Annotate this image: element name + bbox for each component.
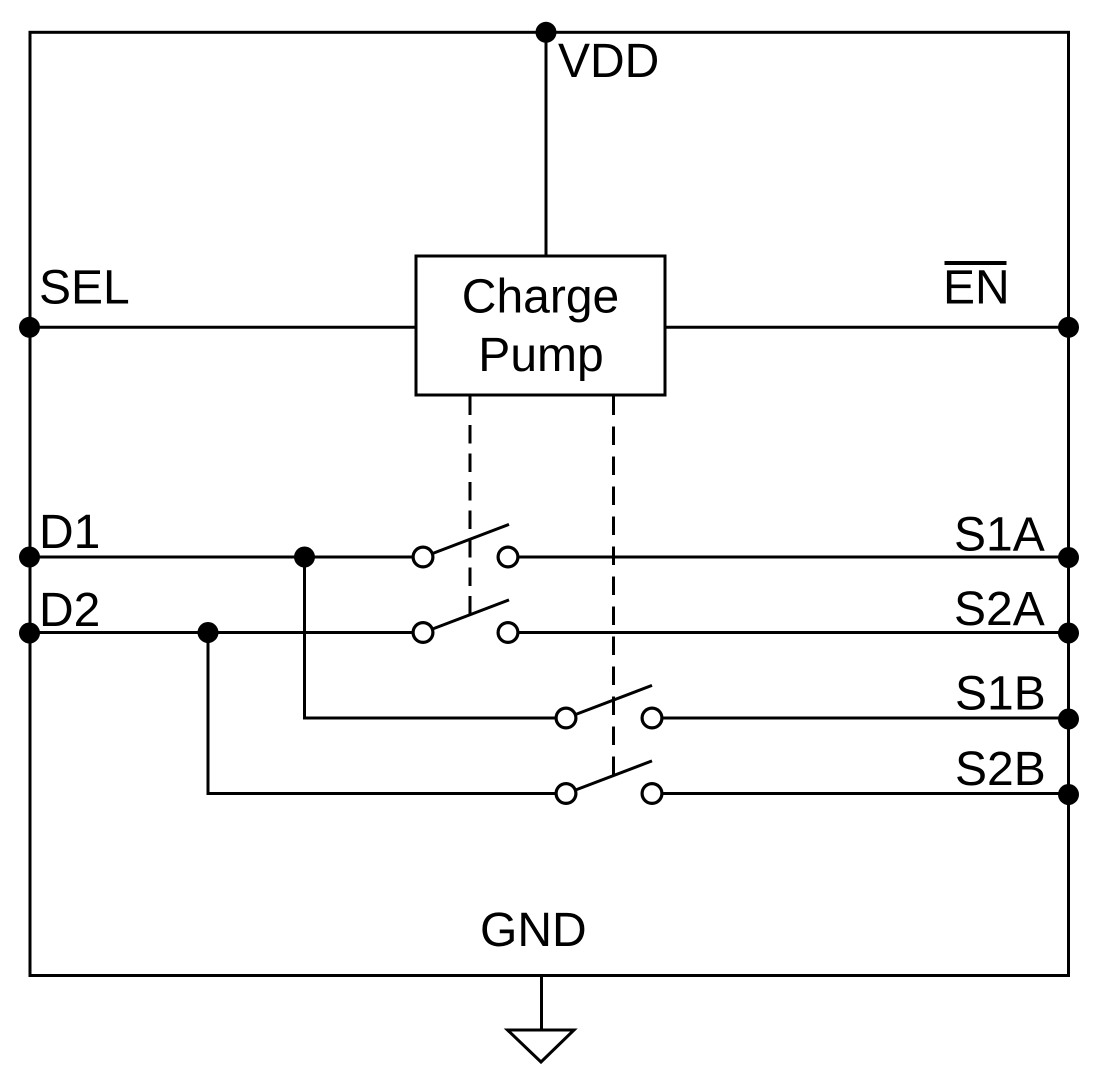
switch S2B blade [577, 761, 653, 790]
switch S1B blade [577, 685, 653, 714]
node EN pin dot [1058, 317, 1079, 338]
wire switch S1A to pin S1A [508, 556, 1069, 559]
node D2 pin dot [19, 623, 40, 644]
wire S1B row left segment [303, 717, 566, 720]
switch S1A blade [434, 524, 510, 553]
svg-text:S1B: S1B [955, 668, 1046, 721]
switch S2B contact circles [556, 784, 576, 804]
svg-text:S2A: S2A [954, 583, 1045, 636]
wire VDD stem [545, 32, 548, 256]
wire S2B row left segment [207, 792, 567, 795]
dashed control wire (right, to switches S1B/S2B) [612, 397, 615, 776]
wire D2 branch down to S2B row [207, 633, 210, 796]
svg-text:EN: EN [943, 262, 1010, 315]
dashed control wire (left, to switches S1A/S2A) [469, 397, 472, 615]
svg-text:D2: D2 [39, 584, 100, 637]
wire SEL (left segment of control rail) [30, 326, 416, 329]
wire D1 to switch S1A [30, 556, 423, 559]
wire switch S2A to pin S2A [508, 631, 1069, 634]
node VDD pin dot [536, 22, 557, 43]
svg-text:SEL: SEL [39, 262, 130, 315]
node D1 pin dot [19, 547, 40, 568]
svg-text:Charge: Charge [462, 271, 619, 324]
svg-text:D1: D1 [39, 506, 100, 559]
wire D1 branch down to S1B row [303, 557, 306, 720]
svg-text:S1A: S1A [954, 509, 1045, 562]
switch S2A blade [434, 600, 510, 629]
node S2A pin dot [1058, 623, 1079, 644]
wire D2 to switch S2A [30, 631, 423, 634]
svg-text:Pump: Pump [478, 329, 603, 382]
svg-text:S2B: S2B [955, 743, 1046, 796]
wire EN (right segment of control rail) [665, 326, 1069, 329]
switch S1A contact circles [413, 547, 433, 567]
wire switch S2B to pin S2B [652, 792, 1069, 795]
node S2B pin dot [1058, 784, 1079, 805]
node D2 branch junction dot [198, 622, 219, 643]
switch S1B contact circles [556, 708, 576, 728]
node S1A pin dot [1058, 547, 1079, 568]
charge pump U1 box [416, 256, 665, 395]
svg-text:VDD: VDD [558, 35, 659, 88]
node D1 branch junction dot [294, 547, 315, 568]
svg-text:GND: GND [480, 904, 587, 957]
wire switch S1B to pin S1B [652, 717, 1069, 720]
node SEL pin dot [19, 317, 40, 338]
switch S2A contact circles [413, 623, 433, 643]
wire GND stem [540, 976, 543, 1031]
node S1B pin dot [1058, 709, 1079, 730]
ground symbol triangle [508, 1030, 575, 1062]
